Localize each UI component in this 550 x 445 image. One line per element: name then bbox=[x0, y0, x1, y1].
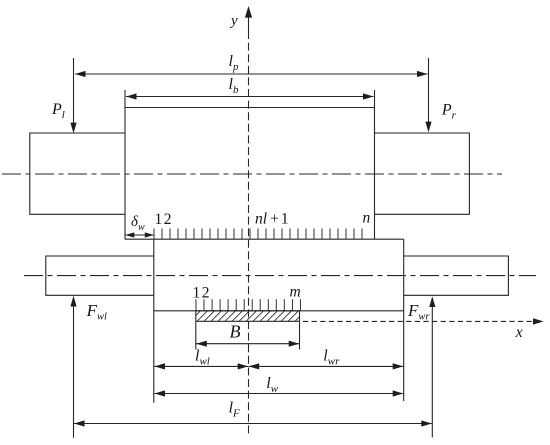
upper roll / lower roll contact line bbox=[125, 238, 404, 240]
svg-text:y: y bbox=[229, 13, 238, 29]
l_p left arrowhead bbox=[75, 71, 86, 77]
svg-text:δw: δw bbox=[131, 214, 145, 233]
l_p right arrowhead bbox=[417, 71, 428, 77]
l_b right arrowhead bbox=[363, 93, 374, 99]
l_w right arrowhead bbox=[393, 390, 404, 396]
svg-text:lF: lF bbox=[229, 400, 240, 420]
x axis dashed line bbox=[303, 320, 534, 322]
F_wl force line bbox=[73, 307, 75, 438]
svg-text:B: B bbox=[230, 322, 241, 342]
lower left journal shaft bbox=[46, 256, 154, 295]
P_l arrowhead bbox=[70, 123, 76, 134]
lower roll body left edge with extension bbox=[153, 239, 155, 403]
l_F left arrowhead bbox=[74, 420, 85, 426]
l_b left arrowhead bbox=[126, 93, 137, 99]
svg-text:lw: lw bbox=[266, 375, 278, 395]
l_wl left arrowhead bbox=[155, 363, 166, 369]
lower right journal shaft bbox=[404, 256, 509, 295]
svg-text:12: 12 bbox=[193, 285, 210, 302]
x axis arrowhead bbox=[533, 318, 544, 324]
dimension delta_w line bbox=[125, 234, 154, 236]
svg-text:12: 12 bbox=[155, 211, 172, 228]
dimension l_w line bbox=[155, 393, 404, 395]
dimension l_F line bbox=[74, 423, 432, 425]
svg-text:m: m bbox=[290, 284, 301, 301]
B left arrowhead bbox=[196, 341, 207, 347]
F_wl arrowhead bbox=[70, 296, 76, 307]
F_wr arrowhead bbox=[429, 296, 435, 307]
B right arrowhead bbox=[289, 341, 300, 347]
delta_w left arrowhead bbox=[125, 232, 134, 237]
P_l force line bbox=[73, 58, 75, 124]
F_wr force line bbox=[431, 307, 433, 438]
dimension l_wr line bbox=[249, 365, 404, 367]
P_r force line bbox=[428, 58, 430, 123]
upper contact-pressure comb ticks bbox=[154, 229, 362, 240]
l_wl right arrowhead bbox=[238, 363, 249, 369]
svg-text:Pr: Pr bbox=[441, 102, 457, 122]
P_r arrowhead bbox=[425, 122, 431, 133]
lower roll body right edge with extension bbox=[403, 239, 405, 401]
svg-text:lwr: lwr bbox=[323, 348, 340, 368]
svg-text:lwl: lwl bbox=[195, 348, 210, 368]
upper right journal shaft bbox=[375, 133, 470, 214]
svg-text:Pl: Pl bbox=[51, 101, 65, 121]
y axis dashed line bbox=[248, 12, 250, 31]
svg-text:x: x bbox=[515, 324, 523, 341]
dimension l_p line bbox=[75, 73, 428, 75]
l_wr left arrowhead bbox=[249, 363, 260, 369]
y axis arrowhead bbox=[245, 6, 252, 18]
dimension l_wl line bbox=[155, 365, 249, 367]
svg-text:lp: lp bbox=[229, 53, 239, 73]
upper roll centerline bbox=[2, 173, 502, 175]
l_w left arrowhead bbox=[155, 390, 166, 396]
l_F right arrowhead bbox=[421, 420, 432, 426]
dimension B line and extension lines bbox=[196, 322, 300, 350]
svg-text:n: n bbox=[363, 210, 371, 227]
lower roll body bottom edge bbox=[154, 310, 404, 312]
svg-text:Fwr: Fwr bbox=[407, 301, 430, 323]
upper roll body bbox=[125, 90, 375, 239]
l_wr right arrowhead bbox=[393, 363, 404, 369]
svg-text:nl+1: nl+1 bbox=[255, 211, 289, 228]
strip (hatched workpiece) outline bbox=[196, 311, 300, 322]
svg-text:Fwl: Fwl bbox=[86, 301, 107, 323]
svg-text:lb: lb bbox=[229, 76, 239, 96]
upper left journal shaft bbox=[30, 133, 125, 214]
delta_w right arrowhead bbox=[145, 232, 154, 237]
lower roll centerline bbox=[24, 275, 536, 277]
strip hatch lines bbox=[190, 311, 313, 322]
lower contact-pressure comb ticks bbox=[196, 299, 300, 311]
dimension l_b line bbox=[126, 96, 374, 98]
